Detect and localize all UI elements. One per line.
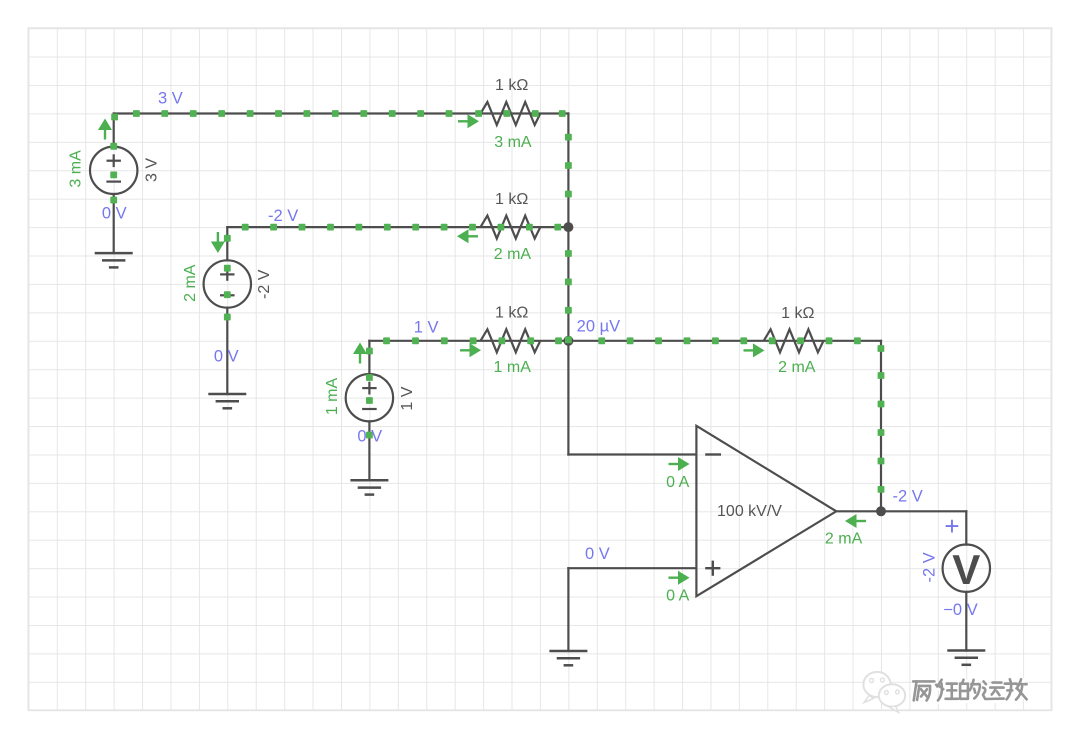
arrow R2 current left xyxy=(457,229,478,243)
arrow R1 current right xyxy=(458,114,479,128)
col 19 current dashes xyxy=(565,134,572,343)
wire row 3 current dashes xyxy=(111,110,565,120)
resistor R4 1 kOhm (feedback) xyxy=(764,329,824,352)
wire V1 top to node column (row 3) xyxy=(114,112,569,114)
wire row 7 current dashes xyxy=(242,224,561,231)
svg-text:+: + xyxy=(944,511,959,541)
arrow V3 current up xyxy=(353,343,367,364)
V3 branch current dashes xyxy=(366,348,373,439)
ground under V2 xyxy=(208,394,246,408)
op-amp U1 xyxy=(696,426,836,596)
svg-text:2 mA: 2 mA xyxy=(825,531,863,548)
wire V1 top lead xyxy=(113,114,115,147)
arrow V1 current up xyxy=(98,119,112,140)
svg-text:20 µV: 20 µV xyxy=(577,318,620,336)
svg-text:1 mA: 1 mA xyxy=(494,359,532,376)
ground under voltmeter xyxy=(947,651,985,665)
node A (summing column row 7) xyxy=(563,222,573,232)
svg-text:3 mA: 3 mA xyxy=(68,150,85,188)
svg-text:2 mA: 2 mA xyxy=(778,359,816,376)
svg-text:2 mA: 2 mA xyxy=(494,246,532,263)
wire V3 to ground xyxy=(368,421,370,480)
arrow R3 current right xyxy=(460,343,481,357)
resistor R2 1 kOhm (middle) xyxy=(481,216,541,239)
wire to op-amp non-inverting input xyxy=(568,567,696,569)
wire node column (col 19, rows 3-11) xyxy=(567,114,569,341)
svg-text:100 kV/V: 100 kV/V xyxy=(717,503,782,520)
svg-text:0 V: 0 V xyxy=(357,428,382,446)
voltage source V1 3V xyxy=(90,147,137,194)
svg-text:1 mA: 1 mA xyxy=(324,378,341,416)
wire feedback down to output (col 30) xyxy=(880,341,882,512)
voltage source V2 -2V xyxy=(204,260,251,307)
svg-text:3 mA: 3 mA xyxy=(494,134,532,151)
arrow inverting input current xyxy=(669,457,690,471)
node B (summing junction row 11) xyxy=(563,336,573,346)
svg-text:1 kΩ: 1 kΩ xyxy=(495,77,528,94)
wire op-amp output to voltmeter xyxy=(836,510,966,512)
svg-text:1 V: 1 V xyxy=(414,319,439,337)
svg-text:1 kΩ: 1 kΩ xyxy=(781,305,814,322)
svg-text:-2 V: -2 V xyxy=(268,207,298,225)
svg-text:3 V: 3 V xyxy=(158,90,183,108)
svg-text:-2 V: -2 V xyxy=(920,552,938,582)
wire node to feedback resistor (row 11) xyxy=(568,340,881,342)
arrow R4 current right xyxy=(744,343,765,357)
wire node down to inverting input xyxy=(567,341,569,455)
svg-text:0 A: 0 A xyxy=(666,474,689,491)
svg-text:0 V: 0 V xyxy=(102,204,127,222)
svg-text:1 V: 1 V xyxy=(399,386,416,410)
svg-text:0 V: 0 V xyxy=(214,347,239,365)
svg-text:1 kΩ: 1 kΩ xyxy=(495,305,528,322)
wire V3 top lead xyxy=(368,341,370,374)
wire row 11 left current dashes xyxy=(383,337,562,344)
wire to op-amp inverting input xyxy=(568,453,696,455)
svg-text:-2 V: -2 V xyxy=(256,269,273,299)
voltage source V3 1V xyxy=(346,374,393,421)
voltmeter M1 xyxy=(943,545,990,594)
ground under V3 xyxy=(350,480,388,494)
svg-text:-2 V: -2 V xyxy=(892,488,922,506)
wire voltmeter to ground xyxy=(965,592,967,651)
V1 branch current dashes xyxy=(110,143,117,204)
wire non-inverting input to ground xyxy=(567,568,569,651)
arrow output current left xyxy=(845,514,866,528)
node C (op-amp output) xyxy=(876,506,886,516)
svg-text:0 A: 0 A xyxy=(666,588,689,605)
wire V2 top lead xyxy=(226,227,228,260)
watermark text (stylized CJK strokes) xyxy=(913,679,1028,702)
wire V3 row to node (row 11) xyxy=(369,340,568,342)
wire V2 to ground xyxy=(226,308,228,394)
resistor R1 1 kOhm (top) xyxy=(481,102,541,125)
svg-text:0 V: 0 V xyxy=(585,545,610,563)
arrow non-inverting input current xyxy=(669,571,690,585)
wire voltmeter top lead xyxy=(965,511,967,544)
wire V2 row to node (row 7) xyxy=(227,226,568,228)
arrow V2 current down xyxy=(211,232,225,253)
V2 branch current dashes xyxy=(224,235,231,321)
svg-text:1 kΩ: 1 kΩ xyxy=(495,191,528,208)
watermark WeChat logo xyxy=(863,672,905,713)
wire row 11 right current dashes xyxy=(598,337,861,344)
resistor R3 1 kOhm (lower) xyxy=(481,329,541,352)
svg-text:V: V xyxy=(952,546,980,593)
ground at non-inverting input xyxy=(549,651,587,665)
svg-text:−0 V: −0 V xyxy=(943,601,977,619)
wire V1 to ground xyxy=(113,194,115,253)
svg-text:3 V: 3 V xyxy=(143,158,160,182)
svg-text:2 mA: 2 mA xyxy=(182,264,199,302)
col 30 current dashes xyxy=(878,345,885,493)
ground under V1 xyxy=(95,253,133,267)
